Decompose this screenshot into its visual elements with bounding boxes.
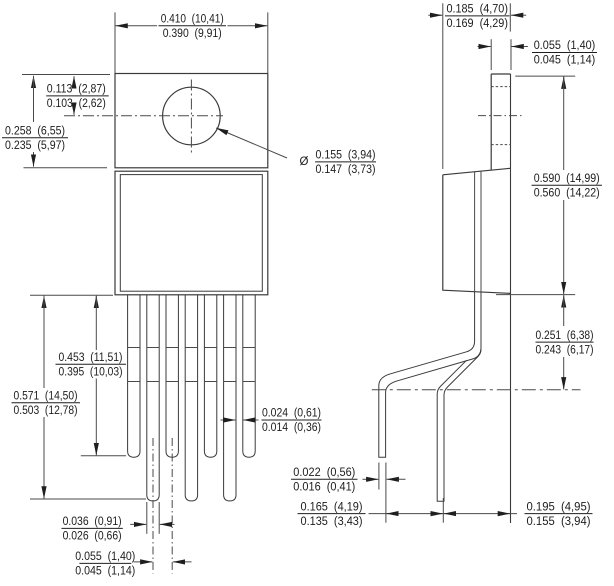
side view tab left edge [490,74,492,170]
dimension text 0.195 (4,95) / 0.155 (3,94) [525,513,593,515]
dimension text 0.410 (10,41) / 0.390 (9,91) [159,25,227,27]
svg-text:0.243 (6,17): 0.243 (6,17) [536,342,594,356]
front view mounting tab outline [115,74,268,168]
svg-text:0.024 (0,61): 0.024 (0,61) [262,406,321,420]
lead 2 outline [147,295,159,501]
tab top extension line (side) [515,75,575,77]
hidden hole edges (dashed) [491,86,510,88]
dimension text 0.185 (4,70) / 0.169 (4,29) [445,15,510,17]
dimension 0.036/0.026 lead width arrows [130,523,146,525]
dimension 0.055/0.045 tab thickness arrows [478,46,491,48]
formed lead front row outline [379,292,481,457]
dimension text 0.036 (0,91) / 0.026 (0,66) [61,527,122,529]
lead 7 outline [243,295,255,457]
hole diameter leader arrow [216,128,287,158]
dimension 0.410/0.390 overall width extension lines [114,12,116,73]
dimension text 0.165 (4,19) / 0.135 (3,43) [298,513,366,515]
dimension text 0.453 (11,51) / 0.395 (10,03) [56,363,127,365]
svg-text:0.045 (1,14): 0.045 (1,14) [534,53,596,67]
svg-text:0.410 (10,41): 0.410 (10,41) [161,12,224,26]
side view hole centerline [478,115,523,117]
front view body inner face [120,175,262,292]
dimension 0.022/0.016 lead thickness arrows [363,478,379,480]
svg-text:Ø: Ø [300,156,309,168]
tab bottom extension line [24,167,108,169]
svg-text:0.560 (14,22): 0.560 (14,22) [534,186,600,200]
dimension 0.165/0.135 arrows [386,513,398,515]
svg-text:0.026 (0,66): 0.026 (0,66) [63,529,122,543]
svg-text:0.055 (1,40): 0.055 (1,40) [534,38,596,52]
lead 7 shoulder step lines [243,347,255,349]
svg-text:0.165 (4,19): 0.165 (4,19) [301,499,363,513]
dimension 0.195/0.155 arrows [444,513,455,515]
svg-text:0.258 (6,55): 0.258 (6,55) [5,123,65,137]
lead 1 shoulder step lines [128,347,140,349]
lead 5 shoulder step lines [204,347,216,349]
svg-text:0.155 (3,94): 0.155 (3,94) [316,148,376,162]
seating plane centerline [372,389,581,391]
svg-text:0.195 (4,95): 0.195 (4,95) [527,499,591,513]
front view body outline [115,171,268,295]
dimension text 0.055 (1,40) / 0.045 (1,14) tab [532,52,597,54]
dimension 0.055/0.045 tab thickness extension lines [490,39,492,70]
svg-text:0.155 (3,94): 0.155 (3,94) [527,514,591,528]
dimension line 0.165 and 0.195 [369,513,518,515]
lead 2 centerline [152,438,154,574]
side view back plane edge [510,74,512,523]
svg-text:0.185 (4,70): 0.185 (4,70) [446,2,508,16]
side view body outline [443,168,511,293]
dimension text 0.113 (2,87) / 0.103 (2,62) [46,95,108,97]
svg-text:0.235 (5,97): 0.235 (5,97) [5,138,65,152]
svg-text:0.503 (12,78): 0.503 (12,78) [14,403,78,417]
dimension 0.024/0.014 lead thickness arrows [221,419,236,421]
dimension 0.453/0.395 short lead length line and arrows [95,296,97,306]
lead 3 shoulder step lines [166,347,178,349]
side view lead through-body lines [474,172,476,292]
dimension 0.251/0.243 standoff line and arrows [563,295,565,305]
svg-text:0.016 (0,41): 0.016 (0,41) [293,480,355,494]
lead 6 shoulder step lines [224,347,236,349]
svg-text:0.147 (3,73): 0.147 (3,73) [316,162,376,176]
lead A tip extension lines [378,463,380,490]
dimension text 0.258 (6,55) / 0.235 (5,97) [2,137,68,139]
dimension 0.113/0.103 hole position arrows [73,76,75,86]
dimension 0.258/0.235 tab height line and arrows [33,76,35,86]
svg-text:0.103 (2,62): 0.103 (2,62) [47,96,106,110]
lead 3 centerline [171,438,173,574]
dimension 0.590/0.560 height line and arrows [563,77,565,87]
hole horizontal centerline [64,115,223,117]
lead 1 outline [128,295,140,457]
lead 2 edge extension lines [146,502,148,534]
lead 6 outline [224,295,236,501]
body bottom extension line (front) [30,294,113,296]
svg-text:0.055 (1,40): 0.055 (1,40) [75,549,135,563]
svg-text:0.036 (0,91): 0.036 (0,91) [63,514,122,528]
hole vertical centerline [190,80,192,153]
svg-text:0.251 (6,38): 0.251 (6,38) [536,328,594,342]
lead 5 outline [204,295,216,457]
dimension text 0.571 (14,50) / 0.503 (12,78) [12,402,81,404]
lead 2 shoulder step lines [147,347,159,349]
svg-text:0.022 (0,56): 0.022 (0,56) [293,465,355,479]
svg-text:0.045 (1,14): 0.045 (1,14) [75,564,135,578]
side view tab top edge [491,73,510,75]
lead 3 outline [166,295,178,457]
formed lead back row outline [437,349,481,501]
body bottom extension line (side) [496,294,575,296]
lead B tip extension line [442,498,444,523]
lead 4 shoulder step lines [185,347,197,349]
mounting hole [163,87,221,145]
dimension 0.185/0.169 arrows [428,14,442,16]
svg-text:0.453 (11,51): 0.453 (11,51) [59,350,123,364]
lead 4 outline [185,295,197,501]
svg-text:0.014 (0,36): 0.014 (0,36) [262,420,321,434]
svg-text:0.135 (3,43): 0.135 (3,43) [301,514,363,528]
dimension 0.055/0.045 lead pitch arrows [133,561,152,563]
svg-text:0.113 (2,87): 0.113 (2,87) [47,82,106,96]
long lead tip extension line [30,498,146,500]
tab top extension line [22,74,110,76]
svg-text:0.390 (9,91): 0.390 (9,91) [163,26,222,40]
dimension text 0.022 (0,56) / 0.016 (0,41) [291,478,358,480]
dimension text 0.155 (3,94) / 0.147 (3,73) [315,161,376,163]
svg-text:0.169 (4,29): 0.169 (4,29) [446,16,508,30]
dimension 0.185/0.169 body thickness extension lines [442,3,444,169]
svg-text:0.395 (10,03): 0.395 (10,03) [59,365,123,379]
svg-text:0.590 (14,99): 0.590 (14,99) [534,171,600,185]
svg-text:0.571 (14,50): 0.571 (14,50) [14,388,78,402]
dimension 0.571/0.503 long lead length line and arrows [43,296,45,306]
short lead tip extension line [81,455,126,457]
dimension text 0.251 (6,38) / 0.243 (6,17) [536,341,594,343]
dimension text 0.024 (0,61) / 0.014 (0,36) [262,419,322,421]
dimension 0.410/0.390 arrows [116,25,158,27]
dimension text 0.055 (1,40) / 0.045 (1,14) [79,562,131,564]
dimension text 0.590 (14,99) / 0.560 (14,22) [532,184,603,186]
